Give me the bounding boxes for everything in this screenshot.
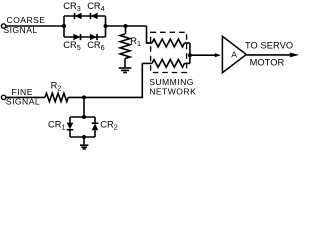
wire bridge right vertical <box>105 16 107 37</box>
wire summing join vertical <box>189 43 191 63</box>
wire bridge bottom branch <box>64 36 106 38</box>
node R1 top <box>124 24 128 28</box>
resistor R2 <box>45 93 68 101</box>
input terminal (fine) <box>1 95 5 99</box>
wire fine to summing (with corner up) <box>68 63 142 97</box>
svg-text:CR6: CR6 <box>87 40 104 52</box>
diode CR1 (points down) <box>67 117 74 137</box>
wire bridge out <box>106 25 147 27</box>
svg-text:CR2: CR2 <box>100 119 117 131</box>
resistor (summing bottom) <box>142 60 190 68</box>
wire bridge top branch <box>64 15 106 17</box>
wire to amplifier with arrowhead <box>190 53 221 57</box>
wire coarse input <box>6 25 64 27</box>
svg-text:MOTOR: MOTOR <box>250 58 285 68</box>
wire clipper top <box>70 116 95 118</box>
node clipper top <box>82 115 86 119</box>
node summing output <box>188 53 192 57</box>
input terminal (coarse) <box>1 24 5 28</box>
resistor R1 <box>120 26 130 67</box>
node fine junction <box>82 95 86 99</box>
ground (under clipper) <box>80 137 88 149</box>
summing network dashed box <box>151 32 187 72</box>
svg-text:R2: R2 <box>51 81 62 93</box>
svg-text:R1: R1 <box>130 36 141 48</box>
svg-text:CR3: CR3 <box>63 1 80 13</box>
svg-text:TO SERVO: TO SERVO <box>245 40 293 50</box>
svg-text:NETWORK: NETWORK <box>149 87 196 97</box>
diode CR4 (points left) <box>91 13 98 20</box>
svg-text:FINE: FINE <box>12 87 33 97</box>
diode CR5 (points right) <box>73 34 80 41</box>
wire down to clipper <box>83 97 85 117</box>
svg-text:SUMMING: SUMMING <box>149 77 194 87</box>
ground (under R1) <box>119 68 132 73</box>
svg-text:CR4: CR4 <box>87 1 104 13</box>
svg-text:COARSE: COARSE <box>7 15 46 25</box>
diode CR2 (points up) <box>92 117 99 137</box>
svg-text:A: A <box>231 50 237 60</box>
op-amp A (triangle) <box>222 36 246 72</box>
node bridge right <box>104 24 108 28</box>
wire bridge left vertical <box>63 16 65 37</box>
wire clipper bottom <box>70 136 95 138</box>
svg-text:CR5: CR5 <box>63 40 80 52</box>
node clipper bottom <box>82 135 86 139</box>
node bridge left <box>62 24 66 28</box>
diode CR3 (points left) <box>75 13 82 20</box>
wire fine input <box>6 96 45 98</box>
wire coarse to summing network (corner) <box>147 26 152 43</box>
svg-text:CR1: CR1 <box>48 119 65 131</box>
resistor (summing top) <box>147 39 190 47</box>
output wire with arrowhead <box>246 53 299 58</box>
diode CR6 (points right) <box>90 34 97 41</box>
